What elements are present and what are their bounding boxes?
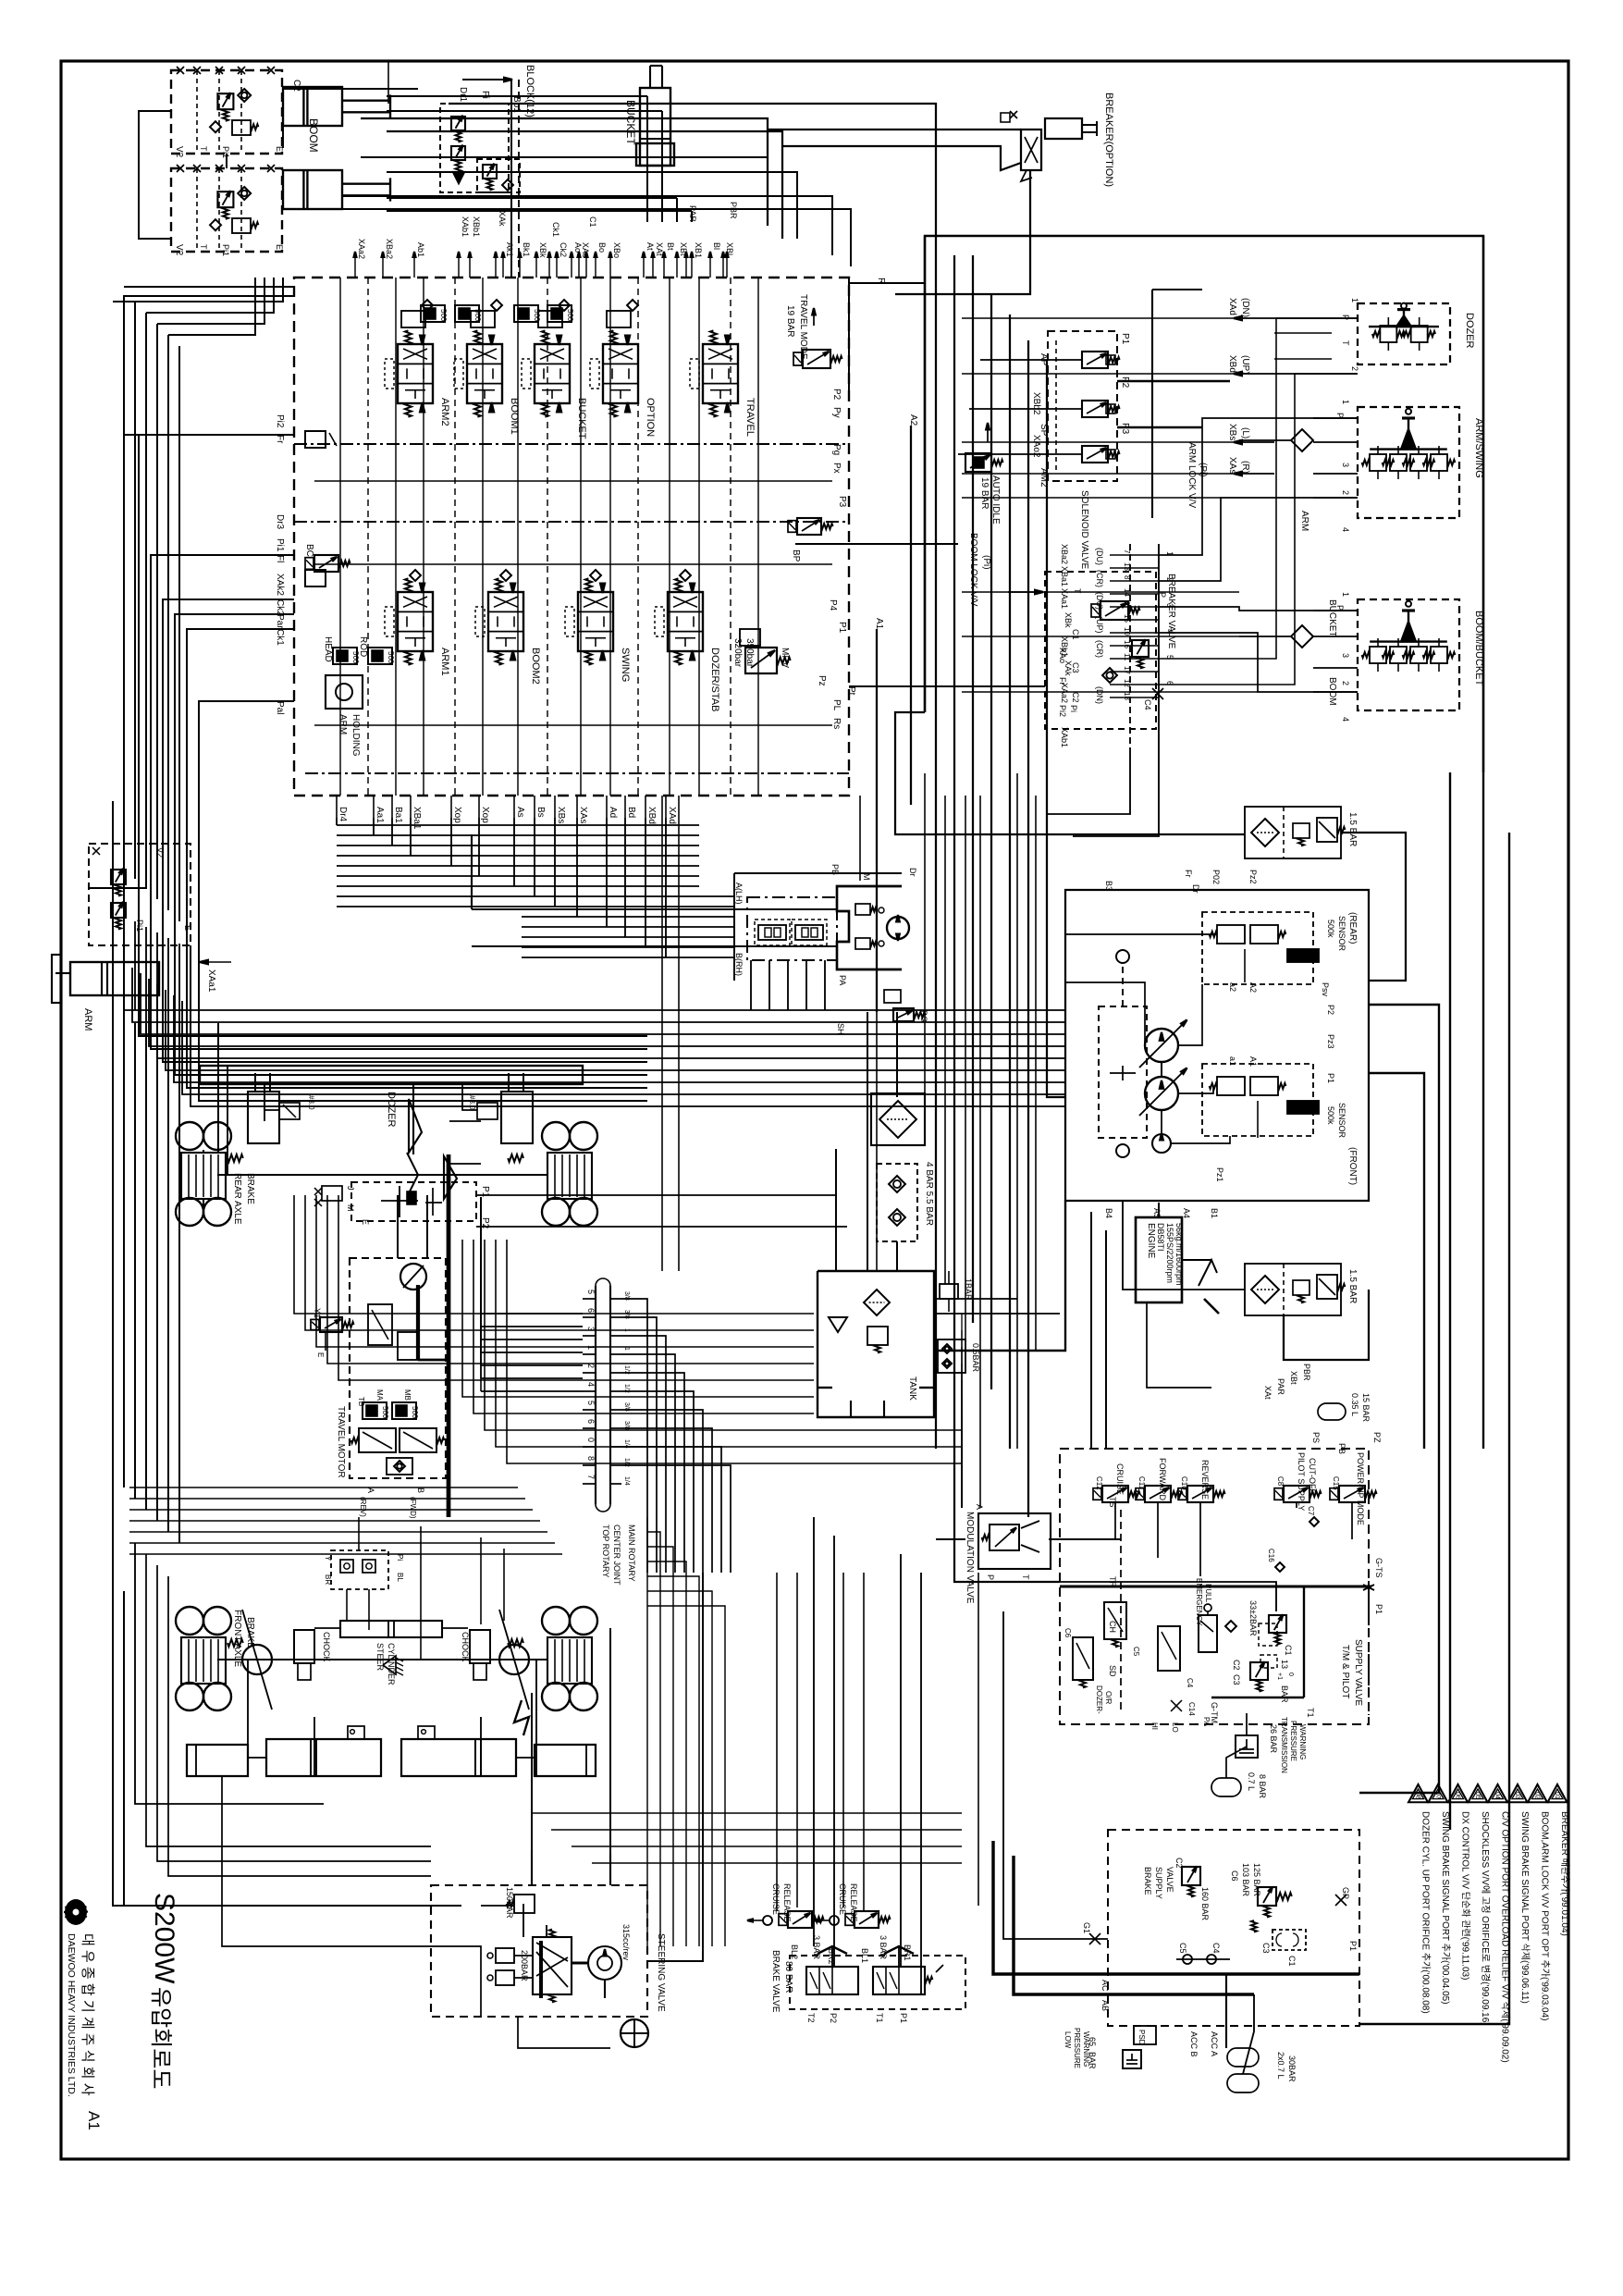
svg-text:Pal: Pal — [275, 701, 285, 714]
svg-text:C6: C6 — [1230, 1870, 1239, 1882]
BC solenoid — [314, 555, 338, 572]
MCV section BOOM1 — [467, 344, 502, 403]
svg-text:ARM LOCK V/V: ARM LOCK V/V — [1187, 442, 1197, 508]
brake pedal valve left — [806, 1967, 858, 1994]
svg-text:At: At — [646, 242, 655, 251]
wire left bundle down to lower-left — [139, 1023, 647, 1036]
svg-text:Psv: Psv — [1321, 982, 1330, 997]
svg-text:XAd: XAd — [1227, 298, 1237, 315]
warning triangle 05 — [1469, 1784, 1488, 1802]
svg-text:02: 02 — [1534, 1792, 1541, 1799]
emergency check diamond — [1225, 1621, 1236, 1632]
svg-text:Pt: Pt — [846, 686, 856, 696]
wire pump out P2 — [1359, 1005, 1439, 1793]
svg-text:C1: C1 — [1071, 629, 1080, 640]
svg-text:P2: P2 — [831, 389, 842, 401]
svg-text:Ck2: Ck2 — [559, 242, 568, 257]
svg-text:Bo: Bo — [597, 242, 607, 253]
svg-text:Pi: Pi — [1069, 705, 1078, 712]
front brake shuttle block — [331, 1550, 388, 1589]
svg-text:C5: C5 — [1178, 1943, 1187, 1954]
svg-text:P2: P2 — [1120, 376, 1130, 389]
svg-text:(FWD): (FWD) — [409, 1497, 417, 1519]
pilot supply cut-off valve C8 — [1284, 1486, 1309, 1502]
pump internal piping — [1065, 933, 1217, 935]
svg-text:XBa1: XBa1 — [412, 807, 422, 830]
pilot gear pump — [1152, 1134, 1171, 1153]
svg-text:C16: C16 — [1267, 1549, 1275, 1562]
dozer cylinder right — [501, 1092, 533, 1143]
G1 marker — [1089, 1933, 1100, 1944]
wire breaker option feed 2 — [782, 146, 1021, 170]
breaker check valves — [1010, 111, 1017, 118]
left bundle to lower bundle — [134, 921, 136, 1010]
svg-text:(Pi): (Pi) — [981, 555, 991, 570]
warning triangle 07 — [1429, 1784, 1448, 1802]
svg-text:T: T — [1341, 340, 1350, 346]
steering 150BAR relief — [514, 1895, 535, 1913]
wires joystick ports to trunk — [962, 317, 1239, 319]
svg-text:G-TM: G-TM — [1210, 1702, 1219, 1723]
svg-text:P1: P1 — [1348, 1941, 1358, 1951]
svg-text:#3.0: #3.0 — [468, 1095, 476, 1110]
svg-text:C8: C8 — [1276, 1476, 1285, 1487]
swing block outer line — [734, 872, 902, 874]
steering wheel — [621, 2019, 648, 2047]
warning triangle 02 — [1528, 1784, 1547, 1802]
wire right trunk x1092 — [1009, 315, 1011, 1449]
solenoid valve 1 — [1082, 352, 1108, 368]
DOZER pilot valve — [1358, 303, 1450, 364]
steering valve block — [431, 1885, 647, 2017]
pilot junction ladder — [1129, 544, 1131, 751]
C4 spool — [1158, 1626, 1180, 1671]
svg-text:LO: LO — [1171, 1722, 1179, 1733]
wire right trunk x1132 — [1047, 361, 1065, 1097]
svg-text:SENSOR: SENSOR — [1337, 1103, 1346, 1139]
svg-text:P1: P1 — [1120, 333, 1130, 345]
svg-text:WARNING: WARNING — [1082, 2031, 1090, 2067]
svg-text:E: E — [361, 1219, 370, 1225]
svg-text:15 BAR: 15 BAR — [1361, 1393, 1371, 1423]
svg-text:6: 6 — [586, 1308, 596, 1313]
svg-text:200BAR: 200BAR — [520, 1950, 529, 1981]
13+1 BAR relief — [1250, 1662, 1268, 1680]
rotary to brake bundle — [646, 1517, 648, 1946]
wire MCV left port lines — [139, 435, 294, 1023]
MRV main relief valve 320/350bar — [745, 648, 777, 673]
boom cylinder upper — [283, 87, 342, 126]
svg-text:01: 01 — [1554, 1792, 1560, 1799]
svg-text:RELEASE: RELEASE — [782, 1883, 792, 1922]
front axle beam — [217, 1659, 547, 1660]
svg-text:M: M — [862, 873, 871, 881]
svg-text:Dr: Dr — [1191, 884, 1200, 894]
steering direction spool — [533, 1937, 572, 1994]
svg-text:P1: P1 — [1326, 1073, 1335, 1083]
wire pilot box bottom to filters — [895, 712, 1245, 834]
bucket cylinder (top) — [640, 88, 670, 166]
svg-text:PRESSURE: PRESSURE — [1289, 1721, 1297, 1761]
svg-text:BL2: BL2 — [790, 1944, 799, 1959]
svg-text:XAb1: XAb1 — [1060, 727, 1069, 747]
svg-text:PL: PL — [831, 699, 842, 711]
33±2BAR relief — [1269, 1615, 1286, 1633]
svg-text:PAR: PAR — [1276, 1378, 1285, 1395]
svg-text:1: 1 — [1341, 400, 1350, 404]
svg-text:Xop: Xop — [452, 807, 462, 823]
svg-text:560: 560 — [439, 309, 448, 322]
svg-text:REVERSE: REVERSE — [1200, 1460, 1210, 1500]
rear axle right wheels — [542, 1122, 570, 1150]
svg-text:80 BAR: 80 BAR — [783, 1961, 793, 1993]
svg-text:(DN): (DN) — [1095, 686, 1104, 704]
svg-text:560: 560 — [533, 309, 541, 322]
svg-text:Ad: Ad — [608, 807, 618, 818]
svg-text:BP: BP — [791, 549, 801, 562]
wire pilot box left edge drop — [924, 236, 926, 712]
svg-text:TANK: TANK — [907, 1376, 917, 1401]
wire travel motor to transmission — [397, 1195, 399, 1258]
svg-text:2x0.7 L: 2x0.7 L — [1276, 2052, 1285, 2080]
svg-text:MAIN ROTARY: MAIN ROTARY — [627, 1524, 636, 1582]
svg-text:C2: C2 — [291, 80, 301, 92]
svg-text:A1: A1 — [874, 618, 884, 630]
reverse solenoid valve C10 — [1187, 1486, 1213, 1502]
wires pump area down to pilot block — [1090, 1212, 1092, 1449]
svg-text:Bk1: Bk1 — [522, 242, 531, 257]
arm cylinder (left) — [70, 962, 159, 995]
MCV section SWING — [578, 592, 613, 651]
front axle right wheels — [542, 1607, 570, 1635]
svg-text:15: 15 — [1123, 614, 1131, 623]
middle horizontal bundle left extension — [124, 962, 305, 1010]
svg-text:7: 7 — [586, 1475, 596, 1479]
svg-text:8: 8 — [1123, 575, 1131, 580]
svg-text:A: A — [366, 1487, 375, 1493]
wire front axle risers — [247, 1660, 249, 1776]
center tall verticals MCV to tank/pumps — [661, 796, 663, 1271]
svg-text:CHOCK: CHOCK — [461, 1632, 470, 1662]
BP solenoid — [797, 518, 821, 535]
front pilot bundle horizontals — [129, 1487, 518, 1488]
svg-text:BL: BL — [396, 1573, 404, 1582]
svg-text:T/M & PILOT: T/M & PILOT — [1340, 1645, 1350, 1698]
left bundle continuation to front axle region — [123, 1023, 125, 1487]
rear axle drive shaft flag — [409, 1099, 422, 1153]
XAs(R) port — [1239, 473, 1274, 475]
svg-text:10: 10 — [1123, 627, 1131, 636]
svg-text:T: T — [1073, 588, 1082, 594]
svg-text:HI: HI — [1150, 1722, 1159, 1730]
wire breaker return drop — [895, 170, 1030, 294]
MCV internal horizontal links — [314, 480, 832, 482]
svg-text:P2: P2 — [829, 2013, 838, 2023]
svg-text:C1: C1 — [1287, 1956, 1297, 1967]
svg-text:T: T — [1021, 1574, 1030, 1580]
svg-text:8: 8 — [586, 1456, 596, 1461]
front axle left wheels — [176, 1607, 203, 1635]
svg-text:Ak1: Ak1 — [505, 242, 514, 257]
svg-text:B: B — [416, 1487, 425, 1493]
svg-text:1/4: 1/4 — [623, 1476, 630, 1486]
svg-text:P3: P3 — [1120, 423, 1130, 435]
power block internal supply lines — [1060, 1586, 1371, 1588]
svg-text:0.7 L: 0.7 L — [1247, 1772, 1256, 1791]
svg-text:P2: P2 — [1326, 1005, 1335, 1015]
svg-text:XBt: XBt — [1289, 1371, 1298, 1385]
travel motor block — [350, 1258, 446, 1478]
svg-text:XBa1: XBa1 — [1060, 566, 1069, 586]
C6 dozer O/R valve — [1073, 1637, 1093, 1680]
svg-text:1: 1 — [1341, 592, 1350, 597]
engine shaft — [1182, 1259, 1211, 1261]
svg-text:Fr: Fr — [1058, 677, 1067, 685]
T/M & pilot supply valve boundary — [1060, 1449, 1369, 1724]
svg-text:CENTER JOINT: CENTER JOINT — [612, 1524, 621, 1586]
svg-text:3: 3 — [1341, 463, 1350, 467]
svg-text:TRAVEL MOTOR: TRAVEL MOTOR — [336, 1406, 346, 1478]
svg-text:C1: C1 — [588, 216, 597, 228]
svg-text:(CR): (CR) — [1095, 640, 1104, 658]
svg-text:A1: A1 — [1248, 1056, 1258, 1067]
svg-text:Pi: Pi — [480, 91, 490, 99]
svg-text:Pg: Pg — [831, 444, 842, 455]
swing motor shuttle box — [747, 897, 837, 960]
XAd(DN) port — [1239, 317, 1274, 319]
svg-text:SENSOR: SENSOR — [1337, 916, 1346, 952]
svg-text:OPTION: OPTION — [645, 398, 656, 437]
svg-text:J: J — [346, 1186, 355, 1191]
wire left column tall — [123, 296, 125, 1023]
modulation valve — [978, 1513, 1051, 1569]
cruise solenoid valve C12 — [1102, 1486, 1128, 1502]
svg-text:(FRONT): (FRONT) — [1347, 1147, 1358, 1185]
svg-text:19 BAR: 19 BAR — [785, 305, 795, 337]
wire bottom heavy AC run — [993, 1841, 1064, 1974]
svg-text:04: 04 — [1494, 1792, 1501, 1799]
svg-text:Pz3: Pz3 — [1326, 1034, 1335, 1049]
front pilot verticals to axle — [420, 1526, 422, 1660]
svg-text:BL1: BL1 — [860, 1948, 869, 1963]
wire cooler path — [896, 1012, 898, 1097]
svg-text:6: 6 — [586, 1419, 596, 1424]
svg-text:C4: C4 — [1186, 1678, 1194, 1688]
svg-text:XAk2: XAk2 — [275, 574, 285, 596]
rear axle left wheels — [176, 1122, 203, 1150]
svg-text:XAs: XAs — [1227, 457, 1237, 474]
svg-text:MA: MA — [375, 1389, 384, 1401]
svg-text:5: 5 — [586, 1290, 596, 1294]
svg-text:Pi1: Pi1 — [275, 538, 285, 552]
svg-text:T1: T1 — [875, 2013, 884, 2023]
svg-text:XB1: XB1 — [694, 242, 703, 258]
svg-text:P1: P1 — [1374, 1604, 1383, 1614]
svg-text:A2: A2 — [908, 414, 918, 426]
MCV section BOOM2 — [488, 592, 523, 651]
svg-text:XBk: XBk — [538, 242, 547, 258]
swing relief top — [855, 904, 870, 915]
travel brake valve Y1 — [320, 1317, 342, 1332]
steer anchor — [383, 1656, 396, 1674]
svg-text:Y: Y — [324, 1556, 332, 1562]
svg-text:Pi: Pi — [396, 1554, 404, 1561]
svg-text:C2: C2 — [1071, 692, 1080, 703]
wire rotary right bundle — [621, 1299, 647, 1573]
svg-text:13: 13 — [1280, 1660, 1289, 1669]
svg-text:350bar: 350bar — [744, 638, 755, 668]
warning triangle 08 — [1408, 1784, 1428, 1802]
C16 orifice — [1275, 1562, 1285, 1572]
svg-text:M: M — [346, 1204, 355, 1212]
steering gerotor — [588, 1946, 621, 1980]
svg-text:Ck1: Ck1 — [275, 629, 285, 646]
MCV section BUCKET — [535, 344, 570, 403]
svg-text:05: 05 — [1474, 1792, 1481, 1799]
wire brake valve feeds — [813, 1517, 815, 1946]
svg-text:0.5BAR: 0.5BAR — [971, 1343, 980, 1373]
svg-text:GP: GP — [1341, 1887, 1350, 1899]
svg-text:CRUISE: CRUISE — [771, 1883, 781, 1915]
C5 pilot valve — [1104, 1602, 1126, 1639]
svg-text:P: P — [986, 1574, 995, 1580]
oil cooler / filter diamond — [871, 1093, 925, 1145]
svg-text:C5: C5 — [1132, 1647, 1140, 1657]
lower-left stepped feeds to steering valve — [146, 1554, 431, 1846]
svg-text:Dr3: Dr3 — [275, 514, 285, 530]
svg-text:2: 2 — [1341, 490, 1350, 495]
svg-text:ARM: ARM — [1299, 511, 1309, 531]
svg-text:As: As — [515, 807, 525, 818]
MCV section TRAVEL — [703, 344, 738, 403]
svg-text:CUT-OFF: CUT-OFF — [1308, 1458, 1317, 1494]
power-up mode valve C15 — [1339, 1486, 1365, 1502]
svg-text:PG: PG — [919, 1010, 928, 1022]
warning triangle 06 — [1448, 1784, 1468, 1802]
travel check pair — [387, 1458, 412, 1475]
main control valve boundary — [294, 278, 849, 796]
svg-text:1.5 BAR: 1.5 BAR — [1347, 812, 1358, 846]
C2 relief 160 BAR — [1182, 1867, 1200, 1885]
svg-text:PBR: PBR — [729, 202, 738, 219]
swing relief bottom — [855, 938, 870, 949]
svg-text:560: 560 — [411, 1406, 419, 1419]
svg-text:Py: Py — [831, 407, 842, 418]
svg-text:ARM: ARM — [82, 1008, 93, 1031]
svg-text:XAk: XAk — [498, 211, 507, 227]
svg-text:XBl: XBl — [725, 242, 734, 255]
svg-text:P: P — [1341, 315, 1350, 320]
steering internals — [523, 1904, 524, 1937]
steer cylinder — [340, 1621, 442, 1637]
svg-text:대 우 종 합 기 계 주 식 회 사: 대 우 종 합 기 계 주 식 회 사 — [80, 1933, 95, 2096]
boom holding valve block lower — [171, 168, 282, 252]
svg-text:BOOM,ARM LOCK V/V PORT OPT 추가(: BOOM,ARM LOCK V/V PORT OPT 추가('99.03.04) — [1540, 1811, 1551, 2021]
svg-text:Pi1: Pi1 — [221, 146, 230, 158]
svg-text:BRAKE: BRAKE — [245, 1173, 255, 1204]
breaker cylinder (option) — [1045, 118, 1082, 139]
wire ladder left feeds — [1110, 554, 1130, 556]
svg-text:Px: Px — [831, 463, 842, 474]
breaker selector valve — [1021, 130, 1041, 170]
svg-text:0: 0 — [1287, 1673, 1294, 1676]
svg-text:BR1: BR1 — [903, 1944, 912, 1961]
pump regulator (REAR) — [1202, 912, 1313, 984]
wire left lower diagonal runs — [190, 945, 191, 1066]
svg-text:500k: 500k — [1326, 1106, 1335, 1125]
svg-text:17: 17 — [1123, 666, 1131, 674]
svg-text:C4: C4 — [1211, 1943, 1221, 1954]
wire accumulator drops — [1225, 1974, 1227, 2048]
0.7L 8BAR accumulator — [1211, 1778, 1241, 1796]
svg-text:C3: C3 — [1071, 662, 1080, 673]
MCV internal pressure bus (dash-dot) — [294, 443, 849, 445]
chock right — [470, 1630, 490, 1663]
C14 orifice — [1171, 1700, 1182, 1711]
G1 feed line — [1003, 1611, 1108, 1939]
svg-text:DOZER: DOZER — [386, 1092, 397, 1128]
wire swing motor to tank — [867, 1012, 868, 1271]
svg-text:PS: PS — [1311, 1432, 1321, 1443]
wire upper filter to pump — [1341, 833, 1406, 981]
svg-text:PILOT SUPPLY: PILOT SUPPLY — [1297, 1452, 1306, 1511]
wire tank suction to pump — [934, 1201, 1065, 1351]
0.5BAR check — [938, 1339, 965, 1373]
ladder continuation down — [1047, 751, 1130, 814]
svg-text:G1: G1 — [1082, 1922, 1091, 1933]
swing shuttle 2 — [795, 925, 823, 940]
svg-text:XAa2: XAa2 — [357, 239, 366, 259]
swing motor casing — [837, 886, 902, 969]
front axle right brake — [547, 1637, 592, 1684]
svg-text:33±2BAR: 33±2BAR — [1248, 1600, 1258, 1636]
tow hook — [514, 1700, 529, 1735]
svg-text:Bs: Bs — [535, 807, 546, 818]
svg-text:B4: B4 — [1104, 1208, 1113, 1218]
svg-text:P: P — [1335, 413, 1345, 418]
26 BAR transmission pressure warning — [1236, 1735, 1258, 1758]
svg-text:Pz2: Pz2 — [1248, 870, 1258, 884]
svg-text:BRAKE VALVE: BRAKE VALVE — [770, 1950, 781, 2013]
svg-text:REAR AXLE: REAR AXLE — [232, 1173, 242, 1225]
svg-text:315cc/rev: 315cc/rev — [621, 1924, 631, 1961]
rear axle left brake — [181, 1153, 226, 1199]
steering knuckle left — [242, 1645, 272, 1674]
svg-text:560: 560 — [387, 651, 395, 664]
wire solenoid block to MCV — [980, 359, 1082, 361]
svg-text:BREAKER 배관추가('99.01.04): BREAKER 배관추가('99.01.04) — [1559, 1811, 1570, 1936]
swing PG relief and solenoid — [884, 990, 901, 1003]
svg-text:유압회로도: 유압회로도 — [148, 1987, 173, 2089]
warning triangle 01 — [1548, 1784, 1568, 1802]
svg-text:26 BAR: 26 BAR — [1269, 1724, 1278, 1754]
svg-text:XBb2: XBb2 — [1031, 392, 1041, 415]
wire very left vertical to bottom — [113, 801, 431, 1906]
svg-text:Dr1: Dr1 — [458, 87, 468, 103]
solenoid valve block boundary — [1048, 331, 1117, 481]
C1 damper — [1273, 1930, 1306, 1950]
wire transmission P lines — [449, 1120, 481, 1122]
C7 check diamond — [1309, 1517, 1319, 1526]
svg-text:Dr: Dr — [908, 868, 917, 877]
svg-text:FORWARD: FORWARD — [1158, 1458, 1167, 1500]
svg-text:4: 4 — [1341, 717, 1350, 722]
svg-text:SOLENOID VALVE: SOLENOID VALVE — [1079, 490, 1089, 570]
svg-text:155PS/2200rpm: 155PS/2200rpm — [1165, 1223, 1174, 1283]
pump regulator (FRONT) — [1202, 1064, 1313, 1136]
svg-text:TOP ROTARY: TOP ROTARY — [601, 1524, 610, 1577]
svg-text:XBd: XBd — [1227, 355, 1237, 373]
